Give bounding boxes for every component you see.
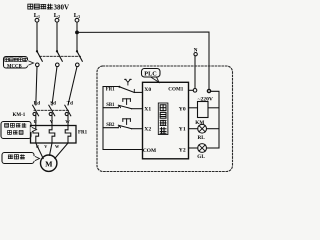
svg-text:RL: RL <box>198 135 206 141</box>
program box 控制程序 (control program) <box>158 103 168 135</box>
svg-text:KM-1: KM-1 <box>13 113 26 118</box>
wire L2 down to breaker <box>56 22 58 51</box>
svg-text:U: U <box>36 144 39 149</box>
wire N down to 220V terminal <box>194 56 196 89</box>
svg-text:MCCB: MCCB <box>7 64 22 69</box>
wire phase3 breaker to contactor <box>68 67 77 105</box>
terminal L2 <box>55 18 59 22</box>
wire phase2 contactor to FR1 <box>51 115 53 126</box>
breaker MCCB pole 1 <box>36 50 43 66</box>
wire Y1 to RL lamp <box>189 128 198 130</box>
svg-text:X1: X1 <box>144 106 151 112</box>
supply terminal right <box>207 89 210 92</box>
wire KM coil to rail <box>208 107 219 109</box>
svg-text:V: V <box>44 144 47 149</box>
svg-text:FR1: FR1 <box>106 88 115 93</box>
svg-text:COM: COM <box>143 148 156 154</box>
svg-text:Y0: Y0 <box>179 106 186 112</box>
FR1 heater element phase3 <box>65 126 71 144</box>
svg-text:COM1: COM1 <box>168 86 183 92</box>
PLC callout bubble <box>142 69 161 83</box>
contactor KM-1 pole 1 <box>33 105 39 116</box>
breaker MCCB pole 2 <box>56 50 63 66</box>
contactor KM-1 pole 3 <box>65 105 71 116</box>
terminal L1 <box>35 18 39 22</box>
breaker linkage dashed <box>40 55 81 57</box>
contactor KM-1 pole 2 <box>49 105 55 116</box>
wire phase3 contactor to FR1 <box>67 115 69 126</box>
lamp RL <box>198 124 207 133</box>
FR1 NC contact input <box>103 79 143 92</box>
thermal relay FR1 box <box>31 126 77 144</box>
PLC dashed enclosure <box>97 66 233 172</box>
wire COM1 to supply terminal <box>189 89 194 91</box>
wire L3 down to breaker <box>76 22 78 51</box>
PLC main box <box>143 82 189 159</box>
wire phase1 contactor to FR1 <box>35 115 37 126</box>
SB2 pushbutton input <box>103 119 143 129</box>
svg-text:Sd: Sd <box>50 101 56 106</box>
lamp GL <box>198 144 207 153</box>
wire RL lamp to rail <box>207 128 220 130</box>
svg-text:Rd: Rd <box>34 101 41 106</box>
junction on L3 feeding PLC supply <box>76 31 79 34</box>
svg-text:PLC: PLC <box>144 70 156 77</box>
label 三相交流380V (three-phase AC 380V) <box>28 4 69 12</box>
FR1 heater element phase1 <box>33 126 39 144</box>
wire GL lamp to rail <box>207 147 220 149</box>
svg-text:W: W <box>65 119 70 124</box>
svg-text:Y1: Y1 <box>179 126 186 132</box>
input common bus wire <box>103 87 143 150</box>
svg-text:380V: 380V <box>54 4 70 12</box>
svg-text:SB2: SB2 <box>106 123 115 128</box>
svg-text:X0: X0 <box>144 87 151 93</box>
svg-text:GL: GL <box>197 154 205 160</box>
svg-text:Y2: Y2 <box>179 148 186 154</box>
callout box: 过热保护继电器 (thermal protection relay) <box>1 122 37 139</box>
wire FR1 to motor phase3 <box>55 143 68 159</box>
motor M <box>41 155 57 171</box>
callout box: 电动机 (motor) <box>2 153 40 164</box>
wire Y0 to KM coil <box>189 107 198 109</box>
wire Y2 to GL lamp <box>189 147 198 149</box>
svg-text:Td: Td <box>67 101 73 106</box>
contactor linkage dashed <box>34 109 69 111</box>
wire FR1 to motor phase2 <box>50 143 53 155</box>
breaker MCCB pole 3 <box>76 50 83 66</box>
terminal L3 <box>75 18 79 22</box>
callout box: 主电源开关 MCCB (main power switch) <box>4 57 34 70</box>
wire phase1 breaker to contactor <box>36 67 37 105</box>
supply terminal left <box>193 89 197 93</box>
coil KM <box>198 102 209 118</box>
wire FR1 to motor phase1 <box>36 143 43 159</box>
svg-text:M: M <box>45 159 53 168</box>
svg-text:FR1: FR1 <box>78 131 88 136</box>
wire right terminal to rail <box>211 91 219 148</box>
FR1 heater element phase2 <box>49 126 55 144</box>
SB1 pushbutton input <box>103 99 143 109</box>
svg-text:SB1: SB1 <box>106 103 115 108</box>
wire L1 down to breaker <box>36 22 38 51</box>
wire from L3 junction to right then down to 220V terminal <box>77 32 209 89</box>
svg-text:X2: X2 <box>144 126 151 132</box>
wire phase2 breaker to contactor <box>52 67 57 105</box>
terminal N <box>194 53 197 56</box>
